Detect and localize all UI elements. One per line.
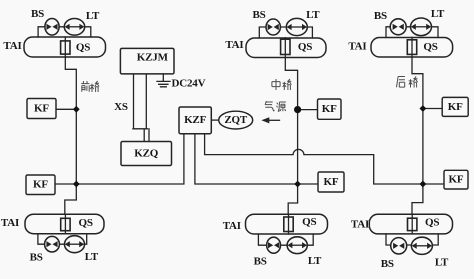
wire KF4 stub [423, 108, 442, 110]
svg-text:TAI: TAI [223, 220, 241, 232]
svg-text:LT: LT [308, 255, 322, 267]
bracket wire (front-top) [38, 27, 91, 37]
svg-text:QS: QS [425, 216, 439, 228]
wire through valve (rear-bottom) [411, 214, 413, 234]
spring chamber LT (rear-top) [411, 18, 432, 36]
wire KF1 stub [56, 108, 76, 110]
svg-text:ZQT: ZQT [224, 114, 247, 126]
svg-text:BS: BS [252, 9, 265, 21]
svg-text:QS: QS [423, 41, 437, 53]
wire KF6 stub [423, 183, 444, 185]
wire KZF pin2 to middle axle [195, 134, 298, 184]
valve QS (middle-bottom) [284, 217, 293, 232]
control module KZJM [120, 48, 174, 74]
wire KF2 stub [55, 183, 76, 185]
svg-text:TAI: TAI [348, 41, 366, 53]
wire through valve (front-top) [64, 37, 66, 57]
svg-text:TAI: TAI [3, 40, 21, 52]
svg-text:KZF: KZF [184, 114, 206, 126]
junction rear/KF6/KZF [420, 181, 427, 188]
label front axle (qianqiao) [81, 81, 99, 92]
valve QS (front-bottom) [61, 218, 70, 230]
control valve KZF [179, 107, 211, 134]
junction rear/KF4 [420, 105, 427, 112]
relay valve KF5 [318, 172, 344, 192]
svg-text:TAI: TAI [225, 39, 243, 51]
svg-text:BS: BS [30, 252, 43, 264]
brake chamber BS (rear-bottom) [391, 238, 407, 254]
label air source (qiyuan) [265, 101, 286, 112]
svg-text:QS: QS [79, 217, 93, 229]
brake chamber BS (front-top) [45, 19, 59, 36]
svg-text:BS: BS [254, 256, 267, 268]
brake chamber BS (front-bottom) [45, 236, 60, 252]
bracket wire (rear-top) [386, 27, 438, 38]
svg-text:LT: LT [435, 256, 449, 268]
junction front/KF1 [73, 106, 80, 113]
ground DC24V symbol [157, 74, 170, 87]
svg-text:TAI: TAI [351, 219, 369, 231]
svg-text:BS: BS [31, 8, 44, 20]
svg-text:KF: KF [322, 103, 337, 115]
valve QS (front-top) [61, 41, 70, 54]
valve QS (rear-bottom) [408, 218, 417, 230]
label middle axle (zhongqiao) [272, 79, 292, 90]
air tank TAI (front-bottom) [25, 214, 104, 234]
relay valve KF3 [318, 99, 342, 119]
brake chamber BS (middle-bottom) [267, 237, 281, 253]
svg-text:BS: BS [374, 10, 387, 22]
bracket wire (middle-bottom) [258, 234, 313, 245]
wire rear axle main [412, 38, 423, 233]
brake chamber BS (rear-top) [390, 19, 406, 35]
wire through valve (middle-top) [284, 38, 286, 58]
svg-text:LT: LT [86, 10, 100, 22]
svg-text:KF: KF [34, 102, 49, 114]
air source arrow (qiyuan) [261, 117, 279, 123]
controller KZQ [121, 142, 172, 166]
svg-text:TAI: TAI [1, 217, 19, 229]
relay valve KF1 [27, 99, 56, 119]
svg-text:KZQ: KZQ [134, 148, 158, 160]
brake chamber BS (middle-top) [266, 19, 280, 35]
air tank TAI (middle-bottom) [246, 214, 328, 234]
air pump ZQT [219, 111, 253, 129]
svg-text:BS: BS [381, 258, 394, 270]
wire middle axle main [285, 38, 297, 234]
svg-text:KF: KF [33, 179, 48, 191]
svg-text:LT: LT [85, 251, 99, 263]
svg-text:QS: QS [298, 41, 312, 53]
wire through valve (rear-top) [411, 38, 413, 58]
bracket wire (rear-bottom) [386, 234, 438, 245]
junction middle/KF3 [294, 106, 301, 113]
spring chamber LT (front-top) [64, 19, 84, 36]
label rear axle (houqiao) [397, 77, 418, 88]
svg-text:KF: KF [448, 101, 463, 113]
air tank TAI (middle-top) [246, 38, 326, 58]
wire KF5 stub [298, 183, 318, 185]
air tank TAI (rear-bottom) [369, 214, 452, 234]
spring chamber LT (middle-top) [286, 18, 307, 35]
air tank TAI (front-top) [24, 37, 106, 57]
svg-text:KF: KF [449, 174, 464, 186]
bracket wire (middle-top) [259, 27, 312, 38]
spring chamber LT (middle-bottom) [287, 237, 307, 254]
valve QS (rear-top) [407, 40, 416, 55]
svg-text:KZJM: KZJM [137, 52, 169, 64]
svg-text:QS: QS [76, 42, 90, 54]
relay valve KF4 [442, 97, 468, 116]
relay valve KF2 [26, 175, 55, 195]
junction middle/KF5/KZF [294, 181, 301, 188]
wire front axle main [65, 38, 77, 234]
wire KZF pin3 to rear axle (with hop) [205, 134, 423, 184]
wire through valve (front-bottom) [64, 214, 66, 234]
wire through valve (middle-bottom) [288, 214, 290, 234]
air tank TAI (rear-top) [371, 38, 453, 58]
spring chamber LT (rear-bottom) [411, 237, 432, 254]
svg-text:DC24V: DC24V [172, 78, 206, 90]
wire KZF to ZQT [211, 119, 218, 121]
svg-text:XS: XS [114, 101, 128, 113]
wire KZF pin1 to front axle [76, 134, 184, 184]
svg-text:KF: KF [324, 176, 339, 188]
svg-text:LT: LT [306, 9, 320, 21]
svg-text:QS: QS [302, 216, 316, 228]
junction front/KF2/KZF [73, 181, 80, 188]
harness XS wires [133, 74, 149, 142]
wire KF3 stub [298, 109, 318, 111]
spring chamber LT (front-bottom) [65, 236, 85, 253]
bracket wire (front-bottom) [38, 234, 87, 245]
relay valve KF6 [444, 170, 468, 189]
valve QS (middle-top) [281, 39, 290, 54]
svg-text:LT: LT [431, 8, 445, 20]
